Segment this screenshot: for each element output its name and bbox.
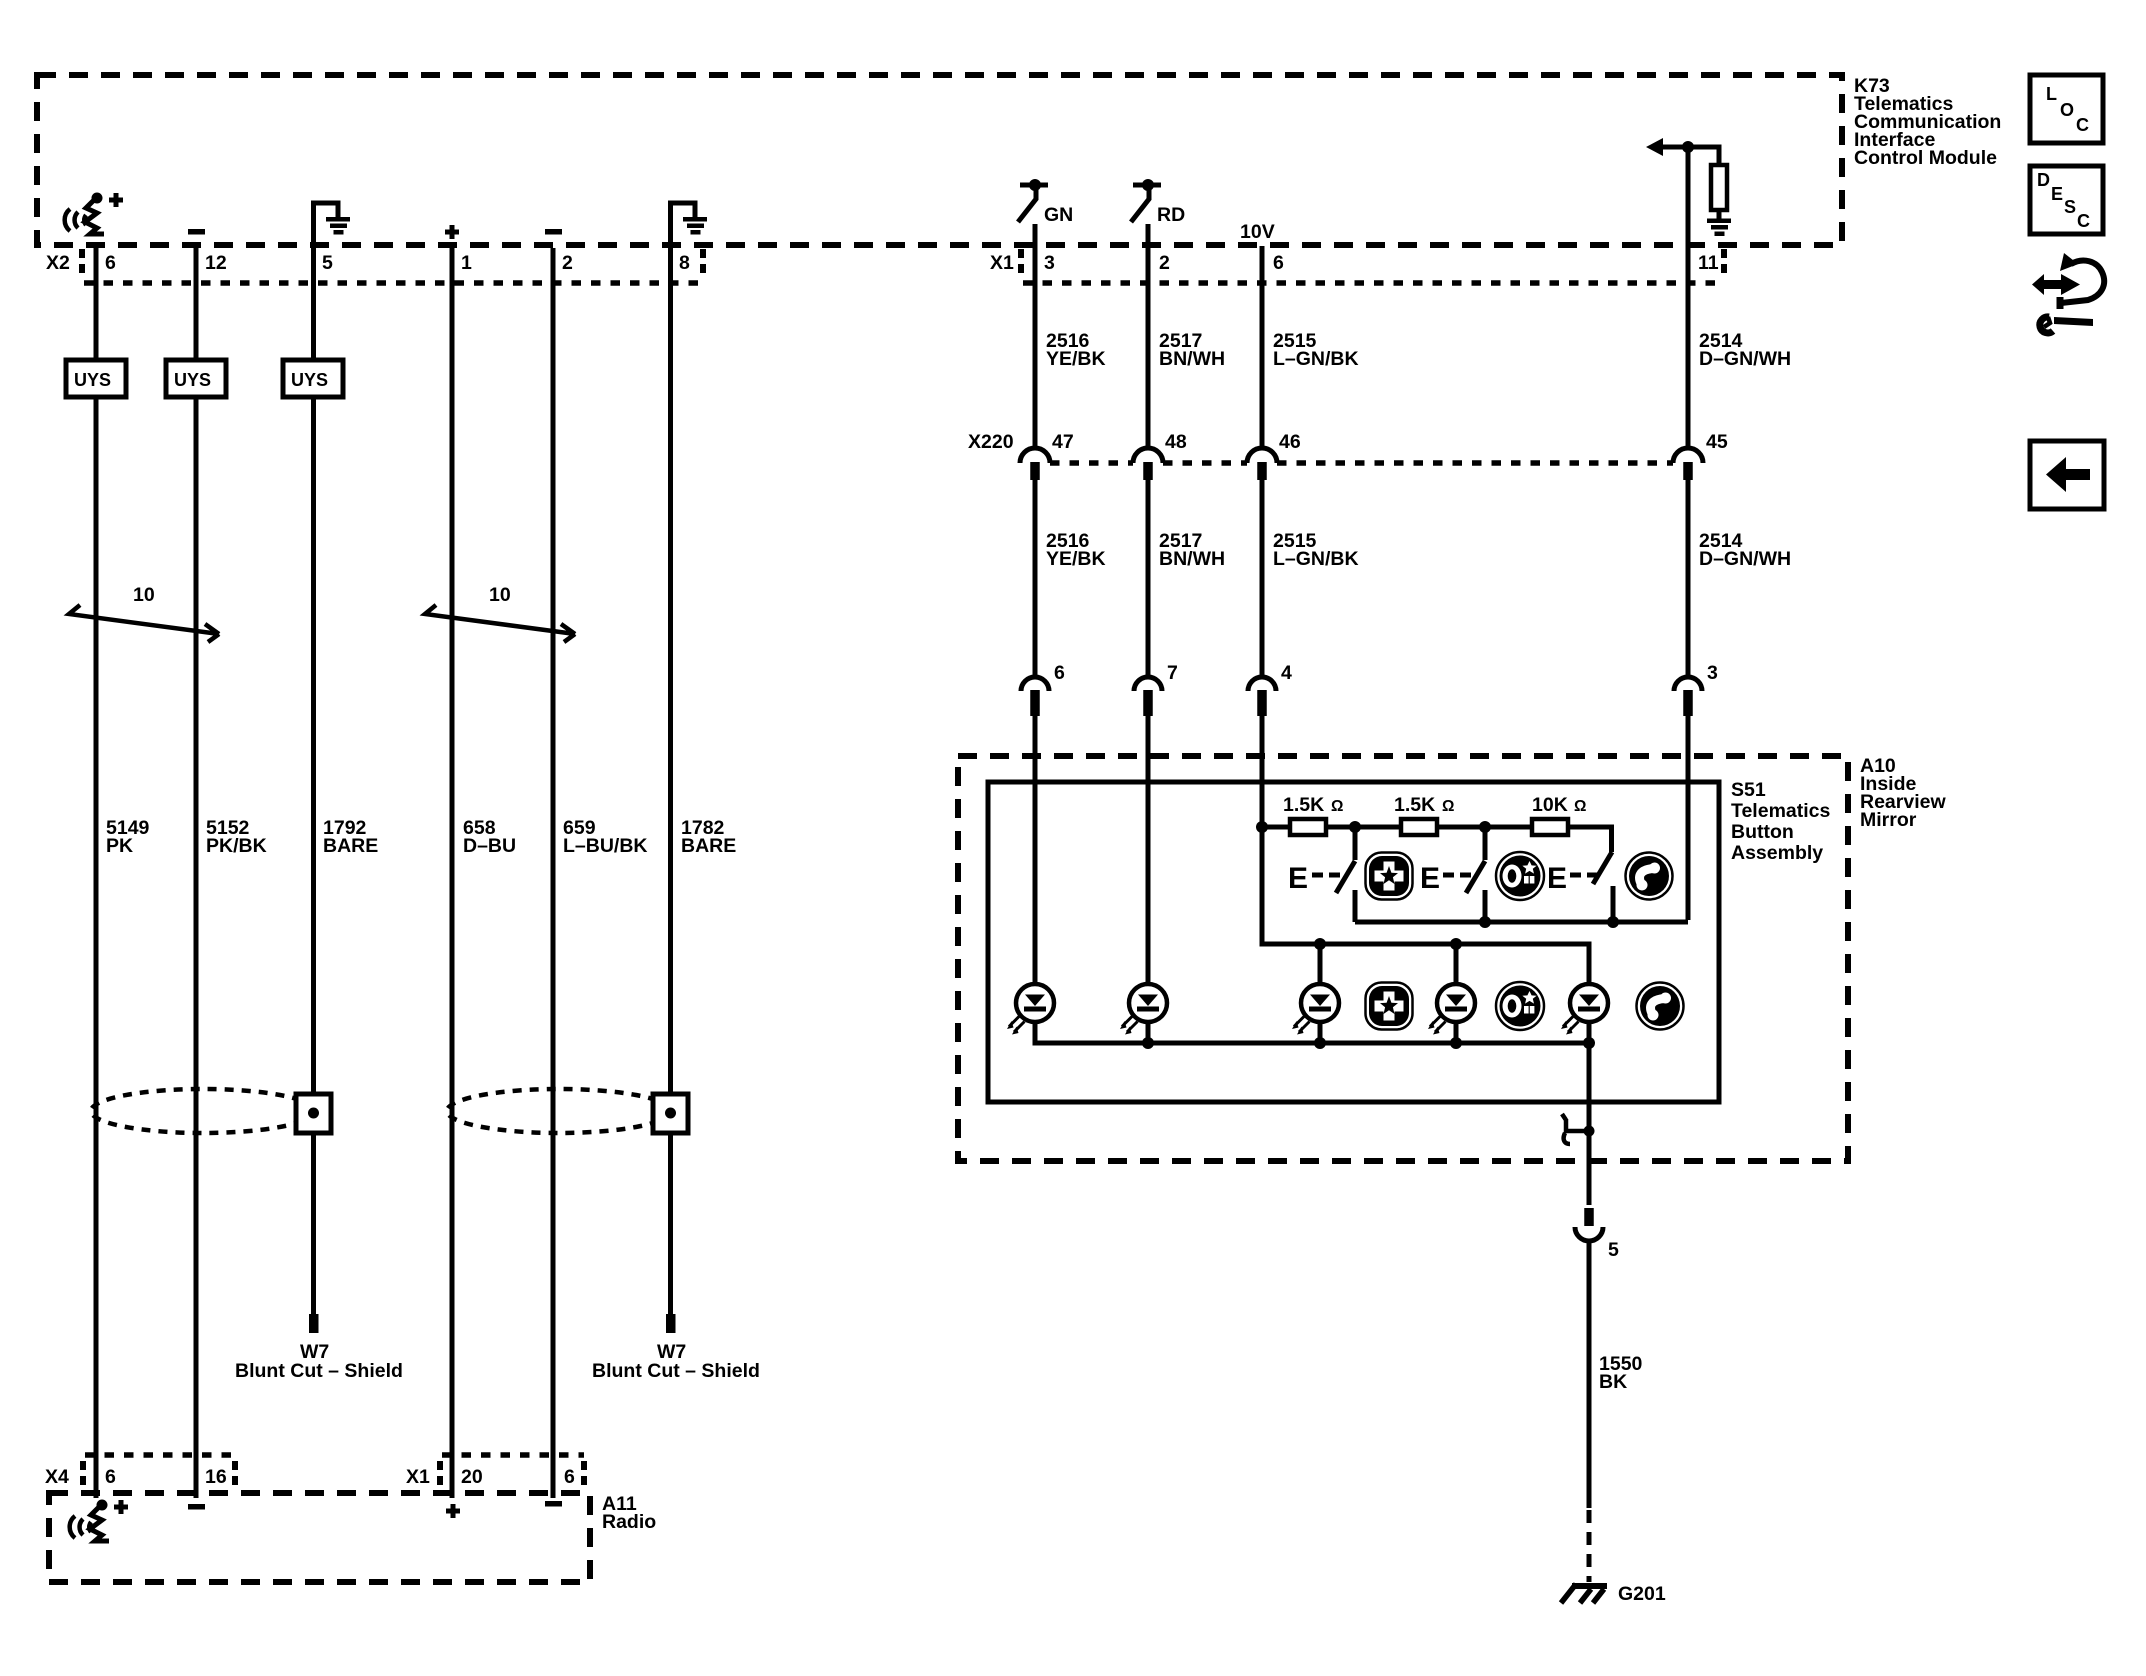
connector X220 (dashed row) [968, 431, 1728, 463]
phone icon (lower) [1637, 983, 1684, 1030]
wire 5149 PK (X2-6 to radio X4-6) [94, 246, 99, 1498]
X220 terminal 48 [1133, 448, 1163, 480]
plus (radio X1-20) [446, 1504, 460, 1518]
S51 Telematics Button Assembly (solid box) [988, 782, 1719, 1102]
minus (radio X1-6) [545, 1501, 562, 1507]
svg-text:GN: GN [1044, 204, 1073, 226]
svg-text:5: 5 [322, 252, 333, 274]
svg-text:PK: PK [106, 835, 133, 857]
switch output bus [1355, 920, 1688, 925]
wire R1 to node B [1326, 825, 1401, 830]
back arrow box [2030, 441, 2104, 509]
A11 label [602, 1493, 656, 1533]
svg-text:5: 5 [1608, 1239, 1619, 1261]
svg-text:S51: S51 [1731, 779, 1766, 801]
svg-text:4: 4 [1281, 662, 1292, 684]
svg-text:E: E [2051, 184, 2063, 204]
svg-text:D: D [2037, 170, 2050, 190]
svg-text:Assembly: Assembly [1731, 842, 1823, 864]
antenna symbol (radio X4-6) [70, 1500, 128, 1542]
minus (K73 X2-2) [545, 229, 562, 235]
OnStar icon (upper) [1496, 852, 1544, 900]
svg-text:BARE: BARE [681, 835, 736, 857]
in-line connector 4 [1248, 677, 1276, 716]
svg-text:Ω: Ω [1574, 798, 1586, 815]
svg-text:BK: BK [1599, 1371, 1627, 1393]
svg-text:8: 8 [679, 252, 690, 274]
wire 5152 PK/BK (X2-12 to radio X4-16) [194, 248, 199, 1498]
cross icon (upper) [1366, 853, 1413, 900]
wire 2516 YE/BK (K73 X1-3 to mirror) [1033, 224, 1038, 983]
svg-text:10: 10 [133, 584, 155, 606]
dashed wire segment to G201 [1587, 1510, 1592, 1582]
wire 2517 BN/WH (K73 X1-2 to mirror) [1146, 224, 1151, 983]
svg-text:7: 7 [1167, 662, 1178, 684]
LED feed line from node A [1262, 827, 1589, 983]
module A11 Radio (dashed box) [49, 1493, 590, 1582]
LED3 [1292, 984, 1339, 1035]
svg-text:3: 3 [1707, 662, 1718, 684]
ground symbol (K73 X2-5) [314, 203, 351, 245]
shield termination square on 1782 [653, 1094, 688, 1133]
svg-text:2: 2 [562, 252, 573, 274]
svg-text:Radio: Radio [602, 1511, 656, 1533]
svg-text:E: E [1547, 862, 1567, 895]
A10 label [1860, 755, 1946, 831]
svg-text:D–GN/WH: D–GN/WH [1699, 548, 1791, 570]
svg-text:L–BU/BK: L–BU/BK [563, 835, 648, 857]
antenna symbol (K73 X2-6) [65, 193, 123, 235]
in-line connector 3 [1674, 677, 1702, 716]
svg-text:BARE: BARE [323, 835, 378, 857]
resistor R3 10K [1532, 819, 1568, 835]
UYS box on wire 1792 [283, 360, 343, 397]
svg-text:3: 3 [1044, 252, 1055, 274]
svg-text:UYS: UYS [291, 370, 328, 390]
S51 label [1731, 779, 1831, 864]
node B junction [1349, 821, 1361, 833]
svg-text:1.5K: 1.5K [1283, 794, 1324, 816]
module K73 Telematics Communication Interface Control Module (dashed box) [37, 75, 1842, 245]
diagnostic arrows and wrench icon [2032, 253, 2104, 333]
svg-text:6: 6 [105, 1466, 116, 1488]
phone icon (upper) [1626, 853, 1673, 900]
twisted pair ellipse (658/659) [447, 1089, 671, 1133]
shield termination square on 1792 [296, 1094, 331, 1133]
connector X2 (pin row) [46, 249, 703, 283]
wire R3 to switch 3 [1568, 827, 1612, 852]
OnStar icon (lower) [1496, 982, 1544, 1030]
svg-text:UYS: UYS [174, 370, 211, 390]
minus (radio X4-16) [188, 1504, 205, 1510]
svg-text:BN/WH: BN/WH [1159, 548, 1225, 570]
in-line connector 5 (inverted) [1575, 1208, 1619, 1261]
svg-text:PK/BK: PK/BK [206, 835, 267, 857]
in-line connector 7 [1134, 677, 1162, 716]
switch symbol RD (K73 X1-2) [1131, 179, 1185, 226]
svg-text:6: 6 [564, 1466, 575, 1488]
ground symbol G201 [1561, 1583, 1666, 1605]
wire R2 to node C [1437, 825, 1532, 830]
harness marker 10 (left pair) [69, 584, 219, 642]
resistor R1 1.5K [1290, 819, 1326, 835]
switch S2 (onstar button) [1420, 827, 1485, 922]
LED3 feed [1318, 944, 1323, 983]
svg-text:12: 12 [205, 252, 227, 274]
svg-text:UYS: UYS [74, 370, 111, 390]
svg-text:16: 16 [205, 1466, 227, 1488]
svg-text:45: 45 [1706, 431, 1728, 453]
svg-text:Mirror: Mirror [1860, 809, 1917, 831]
svg-text:X1: X1 [990, 252, 1014, 274]
LED4 [1428, 984, 1475, 1035]
svg-text:X4: X4 [45, 1466, 69, 1488]
in-line connector 6 [1021, 677, 1049, 716]
svg-text:L: L [2046, 84, 2057, 104]
connector X1 of K73 (pin row) [990, 249, 1724, 283]
svg-text:48: 48 [1165, 431, 1187, 453]
switch S1 (emergency button) [1288, 827, 1355, 922]
radio connector X1 (pin row) [406, 1455, 584, 1489]
node C junction [1479, 821, 1491, 833]
svg-text:YE/BK: YE/BK [1046, 348, 1106, 370]
svg-text:Blunt Cut – Shield: Blunt Cut – Shield [235, 1360, 403, 1382]
svg-text:1: 1 [461, 252, 472, 274]
svg-text:RD: RD [1157, 204, 1185, 226]
svg-text:E: E [1288, 862, 1308, 895]
plus (K73 X2-1) [445, 225, 459, 239]
wire 658 D-BU (X2-1 to radio X1-20) [450, 246, 455, 1498]
LED2 [1120, 984, 1167, 1035]
UYS box on wire 5152 [166, 360, 226, 397]
clip symbol on ground wire [1562, 1114, 1589, 1144]
ground wire from LED bus [1587, 1023, 1592, 1205]
DESC reference box [2030, 166, 2103, 234]
LOC reference box [2030, 75, 2103, 143]
svg-text:Blunt Cut – Shield: Blunt Cut – Shield [592, 1360, 760, 1382]
svg-text:L–GN/BK: L–GN/BK [1273, 548, 1359, 570]
X220 terminal 46 [1247, 448, 1277, 480]
svg-text:D–BU: D–BU [463, 835, 516, 857]
ground symbol (K73 X2-8) [671, 203, 708, 245]
X220 terminal 45 [1673, 448, 1703, 480]
LED1 [1007, 984, 1054, 1035]
node A junction [1256, 821, 1268, 833]
twisted pair ellipse (5149/5152) [91, 1089, 315, 1133]
wire 1550 BK to ground [1587, 1241, 1592, 1508]
svg-text:10: 10 [489, 584, 511, 606]
svg-text:E: E [1420, 862, 1440, 895]
K73 label [1854, 75, 2001, 169]
wire 1792 BARE shield (X2-5 to blunt cut) [311, 245, 316, 1316]
svg-text:X2: X2 [46, 252, 70, 274]
module A10 Inside Rearview Mirror (dashed box) [958, 756, 1848, 1161]
X220 terminal 47 [1020, 448, 1050, 480]
harness marker 10 (right pair) [425, 584, 575, 642]
switch symbol GN (K73 X1-3) [1018, 179, 1073, 226]
wire 659 L-BU/BK (X2-2 to radio X1-6) [551, 248, 556, 1498]
svg-text:11: 11 [1698, 252, 1719, 274]
internal resistor with arrow and ground (K73 pin 11) [1646, 138, 1731, 236]
svg-text:Ω: Ω [1442, 798, 1454, 815]
svg-text:YE/BK: YE/BK [1046, 548, 1106, 570]
UYS box on wire 5149 [66, 360, 126, 397]
svg-text:Ω: Ω [1331, 798, 1343, 815]
svg-text:10K: 10K [1532, 794, 1568, 816]
svg-text:20: 20 [461, 1466, 483, 1488]
svg-text:L–GN/BK: L–GN/BK [1273, 348, 1359, 370]
svg-text:10V: 10V [1240, 221, 1275, 243]
svg-text:X220: X220 [968, 431, 1014, 453]
svg-text:O: O [2060, 100, 2074, 120]
svg-text:BN/WH: BN/WH [1159, 348, 1225, 370]
svg-text:Button: Button [1731, 821, 1794, 843]
cross icon (lower) [1366, 983, 1413, 1030]
svg-text:6: 6 [1273, 252, 1284, 274]
radio connector X4 (pin row) [45, 1455, 235, 1489]
svg-text:Telematics: Telematics [1731, 800, 1831, 822]
svg-text:C: C [2076, 115, 2089, 135]
svg-text:47: 47 [1052, 431, 1074, 453]
LED4 feed [1454, 944, 1459, 983]
svg-text:6: 6 [105, 252, 116, 274]
svg-text:G201: G201 [1618, 1583, 1666, 1605]
svg-text:D–GN/WH: D–GN/WH [1699, 348, 1791, 370]
wire 2514 D-GN/WH (K73 X1-11 to mirror) [1686, 150, 1691, 920]
svg-text:6: 6 [1054, 662, 1065, 684]
wire 2515 L-GN/BK (K73 X1-6 to mirror) [1260, 246, 1265, 827]
resistor R2 1.5K [1401, 819, 1437, 835]
svg-text:Control Module: Control Module [1854, 147, 1997, 169]
svg-text:46: 46 [1279, 431, 1301, 453]
svg-text:C: C [2077, 211, 2090, 231]
switch S3 (phone button) [1547, 852, 1613, 922]
wire 1782 BARE shield (X2-8 to blunt cut) [668, 245, 673, 1316]
LED5 [1561, 984, 1608, 1035]
svg-text:2: 2 [1159, 252, 1170, 274]
svg-text:1.5K: 1.5K [1394, 794, 1435, 816]
LED cathode bus [1035, 1023, 1589, 1043]
svg-text:S: S [2064, 197, 2076, 217]
svg-text:X1: X1 [406, 1466, 430, 1488]
resistor chain feed wire [1262, 825, 1290, 830]
minus (K73 X2-12) [188, 229, 205, 235]
